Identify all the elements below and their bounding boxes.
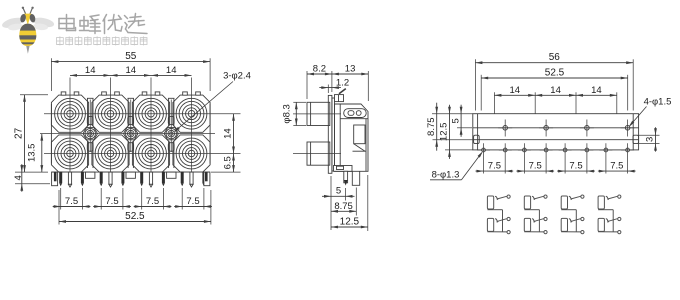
logo text: char 3 (you) [103, 15, 122, 34]
svg-text:7.5: 7.5 [488, 160, 501, 171]
svg-text:13: 13 [345, 64, 356, 75]
jack J6 collar octagon and rings at (110.5,153.5) [92, 135, 129, 172]
schematic symbol group 4: top jack [598, 195, 621, 232]
footprint bottom hole 7 (phi1.3) [599, 143, 612, 173]
dimension 56 (footprint overall) [475, 52, 633, 110]
svg-text:7.5: 7.5 [569, 160, 582, 171]
svg-text:8.75: 8.75 [334, 201, 353, 212]
side view top barrel [307, 102, 330, 125]
svg-text:7.5: 7.5 [105, 196, 118, 207]
logo text: char 4 (xuan) [125, 14, 148, 34]
svg-text:1.2: 1.2 [336, 78, 349, 89]
front right corner tab [204, 172, 210, 186]
svg-text:φ8.3: φ8.3 [282, 104, 293, 123]
footprint bottom hole 8 (phi1.3) [621, 143, 634, 173]
schematic symbol group 4: top contact dot [607, 198, 609, 200]
jack J2 collar octagon and rings at (110.5,113.7) [92, 95, 129, 132]
logo: bee left wing [1, 16, 24, 32]
dimension 1.2 (flange thickness) [319, 78, 349, 94]
svg-text:7.5: 7.5 [529, 160, 542, 171]
schematic symbol group 3: bottom jack [561, 217, 584, 233]
dimension 12.5 (side) [331, 175, 368, 231]
logo: bee right wing [32, 16, 55, 31]
dimension phi8.3 (barrel diameter) [282, 102, 307, 125]
svg-text:12.5: 12.5 [340, 217, 360, 228]
label 8-phi1.3 with leader [430, 151, 483, 180]
mounting hole M1 (phi2.4) between columns [83, 100, 98, 153]
schematic symbol group 2: top jack [524, 195, 547, 232]
svg-text:14: 14 [223, 128, 234, 139]
front view column centerlines [70, 78, 192, 173]
side view mounting foot [334, 166, 353, 172]
schematic symbol group 2: bottom jack [524, 217, 547, 233]
svg-text:14: 14 [166, 65, 177, 76]
logo text: char 1 (dian) [59, 15, 76, 31]
svg-text:55: 55 [125, 51, 137, 62]
logo: bee stinger [26, 46, 29, 54]
svg-text:14: 14 [550, 85, 561, 96]
dimension 14 x3 (front column pitch) [70, 65, 192, 77]
schematic symbol group 2: bottom contact dot [533, 220, 535, 223]
front left corner tab [52, 172, 58, 186]
svg-text:3-φ2.4: 3-φ2.4 [223, 71, 251, 82]
mounting hole M2 (phi2.4) between columns [124, 100, 138, 153]
dimension 52.5 (front bottom) [59, 190, 211, 225]
svg-text:7.5: 7.5 [146, 196, 159, 207]
dimensions 7.5 x4 (footprint pairs) [476, 160, 636, 172]
schematic symbol group 4: bottom jack [598, 217, 621, 233]
label 3-phi2.4 with leader [174, 71, 251, 133]
column 3 ground pins (dark) [140, 172, 165, 187]
side view bottom pin [344, 171, 348, 185]
footprint right slot [633, 135, 639, 143]
logo subtext (10 small chars) [57, 36, 148, 45]
jack J3 collar octagon and rings at (151.0,113.7) [132, 95, 169, 132]
svg-text:13.5: 13.5 [27, 144, 38, 163]
svg-text:7.5: 7.5 [610, 160, 623, 171]
gap post slots at x=90.25 [87, 98, 93, 168]
footprint top hole 2 (phi1.5) [539, 120, 553, 137]
front view bottom plastic feet [86, 172, 177, 178]
svg-text:4: 4 [13, 175, 24, 180]
svg-text:8.2: 8.2 [313, 64, 326, 75]
svg-text:5: 5 [336, 186, 341, 197]
jack J4 top tabs [183, 92, 201, 95]
jack J7 collar octagon and rings at (151.0,153.5) [132, 135, 169, 172]
dimension 5 (footprint left) [450, 105, 472, 137]
side view top contact capsule [344, 109, 367, 118]
jack J1 top tabs [61, 92, 79, 95]
side view flange [328, 95, 334, 173]
dimension 27 (front overall height) [14, 95, 48, 172]
side view top tab and bent pin [335, 89, 346, 102]
footprint bottom hole 3 (phi1.3) [518, 143, 531, 173]
logo: bee head with eyes [19, 13, 36, 24]
svg-text:7.5: 7.5 [65, 196, 78, 207]
mounting hole M3 (phi2.4) between columns [164, 100, 178, 153]
footprint top hole 3 (phi1.5) [580, 120, 594, 137]
dimension 52.5 (footprint) [481, 68, 628, 111]
dimension 8.75 (footprint left) [426, 103, 473, 151]
column 2 signal pin (outline) [109, 172, 112, 187]
dimension 8.2 (side barrel length) [307, 64, 368, 102]
svg-text:56: 56 [549, 52, 561, 63]
jack J3 top tabs [142, 92, 160, 95]
svg-text:14: 14 [85, 65, 96, 76]
column 3 signal pin (outline) [149, 172, 152, 187]
schematic symbol group 1: top contact dot [497, 198, 499, 200]
footprint bottom hole 2 (phi1.3) [499, 143, 512, 173]
svg-text:8-φ1.3: 8-φ1.3 [432, 170, 460, 181]
side view bottom tab (down step) [352, 171, 359, 185]
svg-text:4-φ1.5: 4-φ1.5 [644, 97, 672, 108]
side view main body [335, 104, 369, 171]
dimension 14 x3 (footprint pair pitch) [494, 85, 616, 114]
side view bottom barrel [307, 142, 330, 165]
svg-text:3: 3 [645, 137, 656, 142]
schematic symbol group 1: bottom contact dot [496, 220, 498, 223]
column 4 signal pin (outline) [190, 172, 193, 187]
front view body outline group [51, 98, 210, 172]
footprint bottom hole 5 (phi1.3) [559, 143, 572, 173]
column 1 ground pins (dark) [59, 172, 84, 187]
footprint bottom hole 1 (phi1.3) [477, 143, 490, 173]
svg-text:7.5: 7.5 [186, 196, 199, 207]
schematic symbol group 4: bottom contact dot [607, 220, 609, 223]
logo: bee antennae [22, 7, 34, 14]
footprint left slot [474, 135, 480, 143]
gap post slots at x=130.75 [128, 98, 134, 168]
schematic symbol group 3: top jack [561, 195, 584, 232]
dimensions 7.5 x4 (front pin pairs) [53, 188, 212, 210]
dimension 13.5 (front) [27, 134, 44, 173]
svg-text:14: 14 [510, 85, 521, 96]
schematic symbol group 2: top contact dot [534, 198, 536, 200]
gap post slots at x=171.25 [168, 98, 174, 168]
footprint outline [473, 114, 639, 150]
svg-text:14: 14 [591, 85, 602, 96]
dimension 3 (footprint slot height) [639, 127, 660, 151]
side view axes centerlines [293, 114, 341, 154]
svg-text:52.5: 52.5 [545, 68, 565, 79]
footprint bottom hole 6 (phi1.3) [580, 143, 593, 173]
jack J1 collar octagon and rings at (70.0,113.7) [51, 95, 88, 132]
front view row centerlines [40, 114, 241, 154]
jack J2 top tabs [102, 92, 120, 95]
svg-text:27: 27 [14, 127, 25, 139]
svg-text:52.5: 52.5 [125, 211, 145, 222]
dimension 13 (side body depth) [332, 73, 368, 75]
jack J8 collar octagon and rings at (191.5,153.5) [173, 135, 210, 172]
dimension 5 (side pin offset) [322, 176, 355, 230]
jack J4 collar octagon and rings at (191.5,113.7) [173, 95, 210, 132]
footprint top hole 4 (phi1.5) [621, 120, 635, 137]
dimension 6.5 (front right) [211, 154, 241, 173]
schematic symbol group 1: top jack [487, 195, 510, 232]
svg-text:12.5: 12.5 [439, 123, 450, 142]
jack J5 collar octagon and rings at (70.0,153.5) [51, 135, 88, 172]
dimension 4 (front pin height) [13, 164, 50, 192]
schematic symbol group 3: bottom contact dot [570, 220, 572, 223]
label 4-phi1.5 with leader [629, 97, 672, 128]
svg-text:6.5: 6.5 [223, 156, 234, 169]
svg-text:8.75: 8.75 [426, 117, 437, 136]
column 4 ground pins (dark) [181, 172, 206, 187]
logo text: char 2 (feng) [80, 15, 101, 34]
column 1 signal pin (outline) [68, 172, 71, 187]
dimension 8.75 (side) [331, 188, 356, 216]
svg-text:5: 5 [450, 118, 461, 123]
logo: bee body [16, 22, 40, 54]
footprint bottom hole 4 (phi1.3) [540, 143, 553, 173]
footprint top hole 1 (phi1.5) [498, 120, 512, 137]
schematic symbol group 3: top contact dot [570, 198, 572, 200]
svg-text:14: 14 [126, 65, 137, 76]
column 2 ground pins (dark) [100, 172, 125, 187]
dimension 55 (front overall width) [51, 51, 210, 91]
dimension 12.5 (footprint left) [439, 105, 473, 159]
dimension 14 (front row pitch right) [223, 114, 235, 154]
schematic symbol group 1: bottom jack [487, 217, 510, 233]
